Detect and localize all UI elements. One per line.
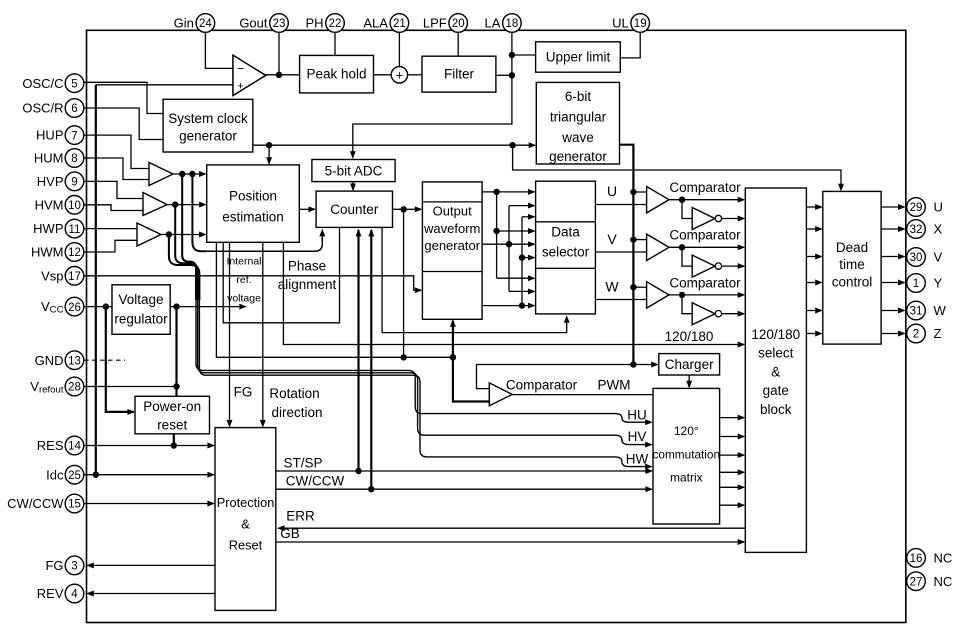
svg-text:U: U <box>607 183 617 199</box>
svg-text:Y: Y <box>934 276 943 291</box>
svg-text:LA: LA <box>484 16 500 31</box>
svg-text:alignment: alignment <box>278 277 337 292</box>
svg-text:120°: 120° <box>674 424 699 438</box>
svg-text:CW/CCW: CW/CCW <box>7 496 64 511</box>
svg-text:18: 18 <box>506 18 519 30</box>
svg-text:block: block <box>760 402 792 417</box>
svg-text:5: 5 <box>71 78 77 90</box>
svg-text:8: 8 <box>71 153 77 165</box>
svg-text:Charger: Charger <box>665 357 714 372</box>
svg-text:17: 17 <box>68 271 81 283</box>
svg-text:31: 31 <box>910 306 923 318</box>
svg-text:OSC/C: OSC/C <box>22 76 63 91</box>
svg-text:23: 23 <box>273 18 286 30</box>
svg-text:13: 13 <box>68 355 81 367</box>
svg-text:wave: wave <box>561 130 594 145</box>
svg-text:W: W <box>934 303 947 318</box>
svg-text:PWM: PWM <box>598 378 631 393</box>
svg-text:21: 21 <box>393 18 406 30</box>
svg-text:6: 6 <box>71 103 77 115</box>
svg-text:30: 30 <box>910 252 923 264</box>
svg-text:120/180: 120/180 <box>665 329 714 344</box>
svg-text:gate: gate <box>763 383 789 398</box>
svg-text:Upper limit: Upper limit <box>546 49 611 64</box>
svg-text:voltage: voltage <box>227 293 261 305</box>
svg-text:GND: GND <box>35 353 64 368</box>
svg-text:Vsp: Vsp <box>41 268 63 283</box>
svg-text:HVM: HVM <box>35 197 64 212</box>
svg-text:NC: NC <box>934 574 953 589</box>
svg-text:Idc: Idc <box>46 467 64 482</box>
svg-text:20: 20 <box>452 18 465 30</box>
svg-text:15: 15 <box>68 499 81 511</box>
svg-text:9: 9 <box>71 177 77 189</box>
svg-text:Gout: Gout <box>239 16 268 31</box>
svg-text:generator: generator <box>424 238 480 253</box>
svg-text:12: 12 <box>68 247 81 259</box>
svg-text:4: 4 <box>71 589 78 601</box>
svg-text:Peak hold: Peak hold <box>306 67 366 82</box>
svg-text:X: X <box>934 222 943 237</box>
svg-text:Filter: Filter <box>444 67 475 82</box>
svg-text:25: 25 <box>68 470 81 482</box>
svg-text:generator: generator <box>549 149 607 164</box>
svg-text:Voltage: Voltage <box>118 292 163 307</box>
svg-text:FG: FG <box>234 385 253 400</box>
svg-text:FG: FG <box>45 558 63 573</box>
svg-text:Counter: Counter <box>330 202 379 217</box>
svg-text:Protection: Protection <box>217 495 275 510</box>
svg-text:estimation: estimation <box>222 210 284 225</box>
svg-text:RES: RES <box>37 438 64 453</box>
svg-text:2: 2 <box>913 329 919 341</box>
svg-text:Gin: Gin <box>174 16 194 31</box>
svg-text:HWM: HWM <box>31 245 64 260</box>
svg-text:commutation: commutation <box>653 448 721 462</box>
svg-text:+: + <box>396 68 403 82</box>
svg-text:Comparator: Comparator <box>669 275 741 290</box>
svg-text:NC: NC <box>934 551 953 566</box>
svg-text:HW: HW <box>626 451 649 466</box>
svg-text:OSC/R: OSC/R <box>22 101 63 116</box>
svg-text:HVP: HVP <box>37 174 64 189</box>
svg-text:Rotation: Rotation <box>269 386 319 401</box>
svg-text:6-bit: 6-bit <box>565 89 592 104</box>
svg-text:UL: UL <box>612 16 629 31</box>
svg-text:REV: REV <box>37 586 64 601</box>
svg-text:ERR: ERR <box>286 509 315 524</box>
svg-text:Power-on: Power-on <box>143 399 201 414</box>
svg-text:ALA: ALA <box>363 16 388 31</box>
svg-text:regulator: regulator <box>114 311 168 326</box>
svg-text:HV: HV <box>628 429 647 444</box>
svg-text:select: select <box>758 346 794 361</box>
svg-text:Reset: Reset <box>229 538 263 553</box>
svg-text:28: 28 <box>68 382 81 394</box>
svg-text:PH: PH <box>305 16 323 31</box>
svg-text:16: 16 <box>910 553 923 565</box>
svg-text:Output: Output <box>433 204 472 219</box>
svg-text:time: time <box>839 257 865 272</box>
svg-text:reset: reset <box>157 417 187 432</box>
svg-text:120/180: 120/180 <box>751 327 800 342</box>
svg-text:waveform: waveform <box>423 221 480 236</box>
svg-text:CW/CCW: CW/CCW <box>286 474 345 489</box>
svg-text:Phase: Phase <box>288 259 326 274</box>
svg-text:+: + <box>237 81 243 93</box>
svg-text:ST/SP: ST/SP <box>283 455 322 470</box>
svg-text:32: 32 <box>910 224 923 236</box>
svg-text:LPF: LPF <box>423 16 447 31</box>
svg-text:Comparator: Comparator <box>669 180 741 195</box>
svg-text:HUM: HUM <box>34 151 64 166</box>
svg-text:Internal: Internal <box>226 256 261 268</box>
svg-text:24: 24 <box>199 18 212 30</box>
svg-text:triangular: triangular <box>550 110 607 125</box>
svg-text:19: 19 <box>634 18 647 30</box>
svg-text:V: V <box>607 231 617 247</box>
svg-text:selector: selector <box>542 244 590 259</box>
svg-text:generator: generator <box>179 129 237 144</box>
svg-text:Z: Z <box>934 326 942 341</box>
svg-text:Dead: Dead <box>836 240 868 255</box>
svg-text:Comparator: Comparator <box>506 378 578 393</box>
svg-text:14: 14 <box>68 441 81 453</box>
svg-text:control: control <box>832 274 873 289</box>
svg-text:Position: Position <box>229 189 277 204</box>
svg-text:&: & <box>241 517 250 532</box>
svg-text:10: 10 <box>68 200 81 212</box>
svg-text:GB: GB <box>280 526 300 541</box>
svg-text:22: 22 <box>329 18 342 30</box>
svg-text:7: 7 <box>71 130 77 142</box>
svg-text:U: U <box>934 200 943 215</box>
svg-text:Data: Data <box>551 224 580 239</box>
svg-text:HU: HU <box>627 407 647 422</box>
svg-text:−: − <box>237 62 244 76</box>
svg-text:29: 29 <box>910 202 923 214</box>
svg-text:matrix: matrix <box>670 471 703 485</box>
svg-text:System clock: System clock <box>168 111 248 126</box>
svg-text:26: 26 <box>68 302 81 314</box>
svg-text:ref.: ref. <box>236 274 251 286</box>
svg-text:27: 27 <box>910 576 923 588</box>
svg-text:V: V <box>934 250 943 265</box>
svg-text:1: 1 <box>913 278 919 290</box>
svg-text:&: & <box>771 364 780 379</box>
svg-text:Comparator: Comparator <box>669 228 741 243</box>
svg-text:HUP: HUP <box>36 128 63 143</box>
svg-text:3: 3 <box>71 561 77 573</box>
svg-text:W: W <box>605 278 619 294</box>
svg-text:5-bit ADC: 5-bit ADC <box>325 163 383 178</box>
svg-text:direction: direction <box>271 405 322 420</box>
svg-text:11: 11 <box>69 224 81 236</box>
svg-text:HWP: HWP <box>33 221 63 236</box>
